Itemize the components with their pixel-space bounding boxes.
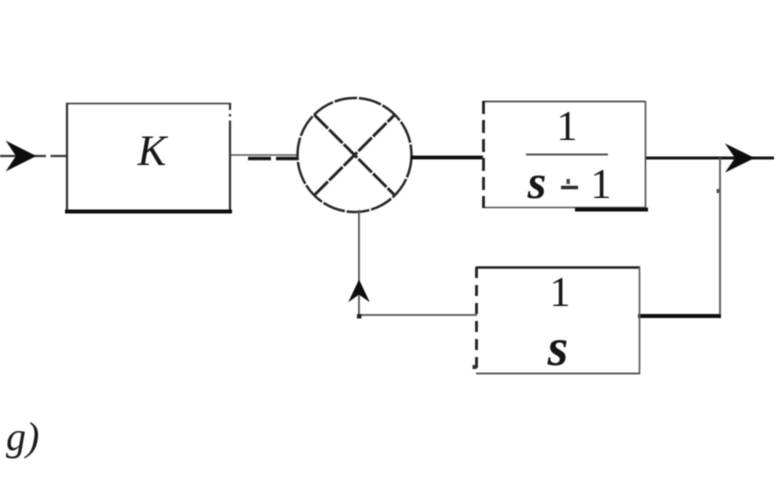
- svg-text:K: K: [137, 128, 169, 175]
- summing junction X diagonal 1: [315, 115, 395, 195]
- svg-text:s: s: [547, 319, 569, 377]
- svg-text:1: 1: [557, 104, 578, 150]
- block 1/s: [476, 267, 640, 374]
- node: feedback corner junction: [357, 314, 362, 319]
- output arrowhead: [729, 147, 753, 170]
- label 1/(s+1) plus sign (faint in scan): [561, 186, 578, 189]
- summing junction X diagonal 2: [315, 115, 395, 195]
- wire input: [0, 155, 46, 157]
- summing junction circle: [298, 98, 412, 212]
- block K: [65, 103, 232, 213]
- svg-text:g): g): [6, 414, 39, 459]
- wire summing junction to block 1/(s+1): [411, 156, 483, 160]
- input arrowhead: [10, 144, 34, 168]
- feedback arrowhead: [351, 282, 368, 300]
- feedback wire up to summing junction: [358, 210, 360, 316]
- feedback tap wire down: [719, 158, 721, 317]
- svg-text:1: 1: [550, 270, 571, 316]
- svg-text:s: s: [527, 156, 547, 209]
- label 1/(s+1) fraction bar: [526, 154, 608, 156]
- speck near 1/s box corner: [473, 365, 477, 369]
- feedback wire bottom left: [358, 314, 477, 316]
- wire output: [646, 157, 774, 160]
- feedback wire bottom right: [638, 314, 721, 318]
- svg-text:1: 1: [591, 162, 612, 208]
- wire K to summing junction: [231, 155, 298, 159]
- speck on tap wire: [717, 189, 720, 193]
- block 1/(s+1): [483, 101, 648, 210]
